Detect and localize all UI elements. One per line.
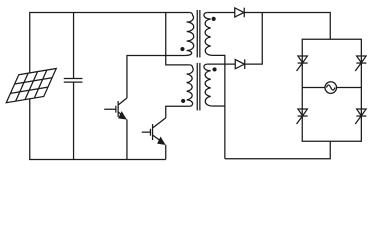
wire bridge output to secondary return rail [225, 141, 330, 159]
diode D1 [235, 8, 245, 18]
transformer T2 lower primary winding [187, 65, 194, 106]
wire lower primary bottom to Q2 collector [166, 106, 190, 118]
wire bridge mid-left to AC source [302, 87, 325, 89]
thyristor S1 (top-left) [297, 56, 308, 71]
transformer T2 core [197, 63, 200, 110]
wire upper primary bottom to Q1 collector [127, 55, 186, 97]
diode D2 [235, 59, 245, 69]
transformer T1 upper secondary winding [204, 12, 213, 55]
transformer T1 core [197, 10, 200, 58]
wire D1 cathode to bridge input [244, 12, 330, 39]
thyristor S3 (bottom-left) [297, 109, 308, 124]
bridge box outline [302, 39, 361, 141]
wire branch from top rail down to lower primary top [166, 12, 190, 64]
wire T2 secondary top to diode D2 [207, 63, 235, 65]
transistor Q1 (IGBT) [104, 98, 127, 160]
thyristor S2 (top-right) [355, 56, 366, 71]
wire PV bottom to bottom-left rail [30, 98, 166, 160]
capacitor C1 [64, 12, 83, 159]
wire AC source to bridge mid-right [337, 87, 362, 89]
wire T1 secondary bottom to return line [213, 55, 225, 158]
transistor Q2 (IGBT) [142, 118, 166, 160]
wire T1 secondary top to diode D1 [207, 11, 235, 13]
T1 secondary polarity dot [212, 17, 216, 21]
wire D2 cathode up to D1 output junction [245, 12, 263, 64]
T2 primary polarity dot [181, 99, 185, 103]
T1 primary polarity dot [180, 47, 184, 51]
T2 secondary polarity dot [212, 67, 216, 71]
AC source V1 [325, 82, 337, 94]
wire T2 secondary bottom to return line [213, 105, 225, 107]
transformer T1 upper primary winding [185, 12, 193, 55]
wire top rail (PV+ to upper primary top) [30, 12, 190, 73]
solar panel PV1 [6, 68, 56, 102]
thyristor S4 (bottom-right) [355, 109, 366, 124]
transformer T2 lower secondary winding [204, 64, 213, 106]
